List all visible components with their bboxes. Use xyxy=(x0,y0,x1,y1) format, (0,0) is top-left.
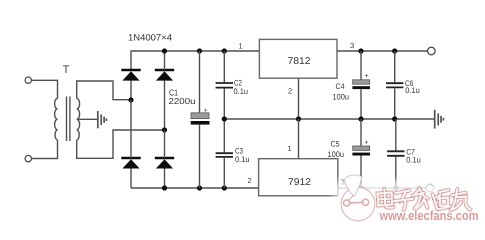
svg-text:C4: C4 xyxy=(336,82,345,91)
input terminal bottom xyxy=(25,155,31,161)
wire top rail right xyxy=(337,50,427,52)
svg-text:+: + xyxy=(365,73,369,80)
transformer secondary winding xyxy=(77,99,80,141)
ground right xyxy=(435,110,444,129)
diode D1 xyxy=(121,70,140,100)
svg-text:+: + xyxy=(365,140,369,147)
capacitor C3 xyxy=(216,119,233,188)
diode D2 xyxy=(155,51,174,130)
svg-text:2: 2 xyxy=(248,176,252,185)
node top rail C4 xyxy=(358,48,363,53)
wire center tap xyxy=(77,118,97,120)
svg-text:3: 3 xyxy=(350,41,354,50)
node bottom rail D4 xyxy=(162,185,167,190)
ground center tap xyxy=(98,111,107,128)
input terminal top xyxy=(25,77,31,83)
wire secondary bottom to bridge xyxy=(77,130,165,158)
svg-text:1: 1 xyxy=(288,144,292,153)
wire bottom rail right xyxy=(338,187,426,189)
capacitor C4 xyxy=(352,51,370,119)
svg-text:100u: 100u xyxy=(333,93,350,102)
wire middle rail xyxy=(224,118,434,120)
svg-text:0.1u: 0.1u xyxy=(405,86,420,95)
svg-text:7812: 7812 xyxy=(288,56,311,67)
capacitor C1 xyxy=(191,51,210,188)
svg-text:T: T xyxy=(63,64,70,76)
wire 7812 pin2 down xyxy=(298,78,300,119)
transformer primary winding xyxy=(55,99,58,141)
svg-text:www.elecfans.com: www.elecfans.com xyxy=(379,208,479,223)
capacitor C7 xyxy=(387,119,404,188)
node top rail D2 xyxy=(162,48,167,53)
svg-text:1: 1 xyxy=(239,41,243,50)
transformer core xyxy=(66,97,68,142)
diode D3 xyxy=(121,100,140,188)
node middle rail start xyxy=(222,116,227,121)
wire input bottom to primary xyxy=(32,140,58,159)
node bottom rail C7 xyxy=(393,185,398,190)
node bottom rail C1 xyxy=(197,185,202,190)
node pin2 middle rail xyxy=(296,116,301,121)
svg-text:100u: 100u xyxy=(328,150,345,159)
svg-text:C5: C5 xyxy=(331,140,340,149)
node top rail C2 xyxy=(222,48,227,53)
node secondary top junction xyxy=(128,97,133,102)
wire top rail left xyxy=(131,51,259,70)
node top rail C1 xyxy=(197,48,202,53)
svg-text:7912: 7912 xyxy=(288,177,311,188)
svg-text:1N4007×4: 1N4007×4 xyxy=(128,32,172,42)
svg-text:2: 2 xyxy=(288,86,292,95)
capacitor C5 xyxy=(352,119,370,188)
output terminal top xyxy=(428,47,436,55)
wire bottom rail left xyxy=(131,187,259,189)
regulator U1 7812 xyxy=(259,39,337,78)
capacitor C6 xyxy=(386,51,403,119)
wire secondary top to bridge xyxy=(77,81,131,100)
node middle rail C4 xyxy=(358,116,363,121)
node middle rail C6 xyxy=(392,116,397,121)
node bottom rail C3 xyxy=(222,185,227,190)
node top rail C6 xyxy=(392,48,397,53)
svg-text:0.1u: 0.1u xyxy=(406,155,421,164)
svg-text:0.1u: 0.1u xyxy=(235,155,250,164)
node secondary bottom junction xyxy=(162,127,167,132)
capacitor C2 xyxy=(216,51,233,119)
wire 7912 pin1 xyxy=(298,119,300,159)
watermark logo xyxy=(341,175,375,221)
svg-text:0.1u: 0.1u xyxy=(234,87,249,96)
diode D4 xyxy=(155,130,174,188)
output terminal bottom xyxy=(426,184,434,192)
svg-text:2200u: 2200u xyxy=(169,96,196,106)
regulator U2 7912 xyxy=(259,159,338,196)
wire input top to primary xyxy=(32,80,58,98)
node bottom rail C5 xyxy=(358,185,363,190)
